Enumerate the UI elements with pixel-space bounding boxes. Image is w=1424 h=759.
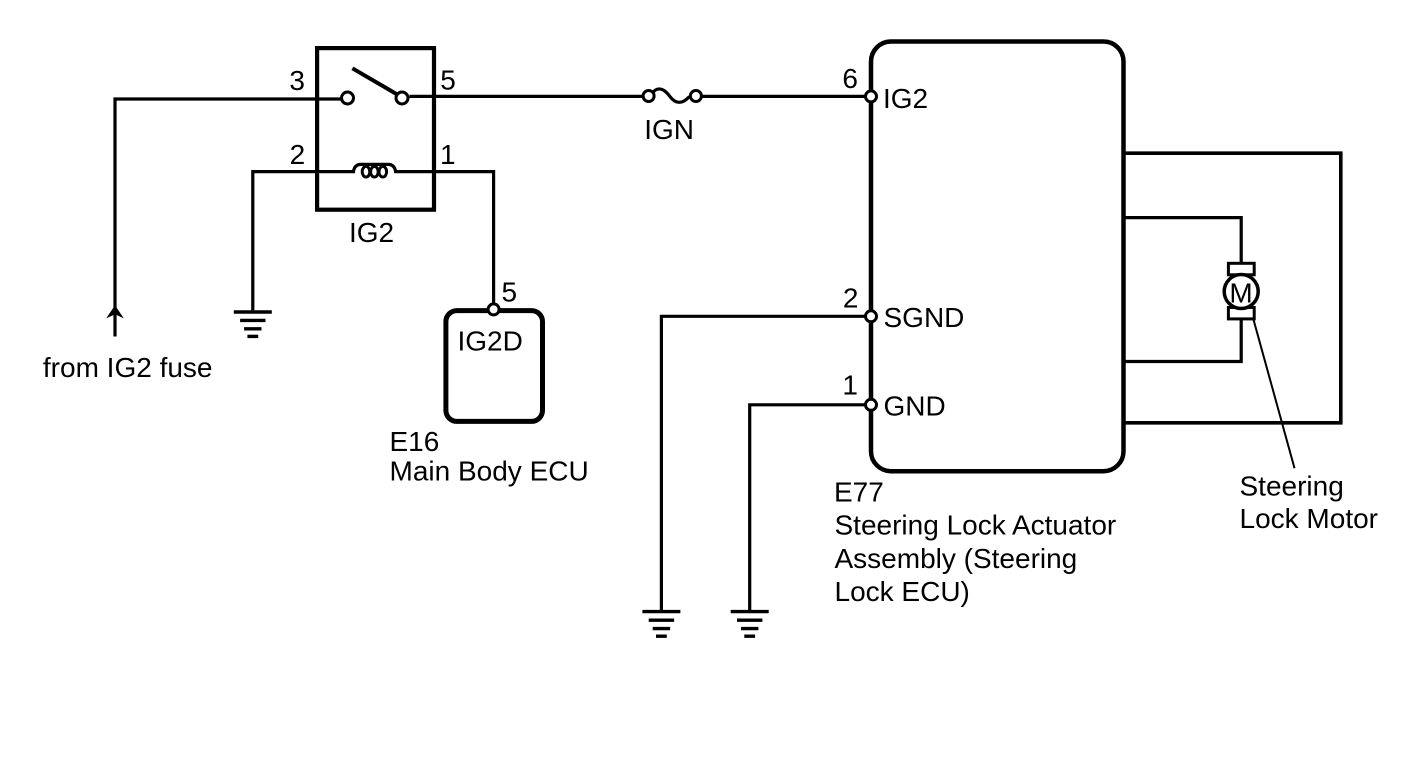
svg-text:E16: E16: [390, 426, 440, 457]
svg-text:E77: E77: [834, 477, 884, 508]
relay box IG2: [317, 48, 434, 210]
motor circle M: [1224, 275, 1258, 309]
svg-text:5: 5: [502, 277, 518, 308]
motor top brush cap: [1228, 263, 1254, 275]
svg-text:GND: GND: [884, 390, 946, 421]
E77 pin 6 circle: [866, 91, 877, 102]
inner motor loop wire top: [1124, 218, 1242, 264]
wire relay pin2 to ground: [253, 172, 317, 311]
svg-text:IGN: IGN: [644, 114, 694, 145]
wire from IG2 fuse vertical riser: [115, 99, 348, 337]
svg-text:IG2D: IG2D: [458, 325, 523, 356]
svg-text:from IG2 fuse: from IG2 fuse: [43, 352, 213, 383]
outer motor loop wire: [1124, 153, 1341, 423]
svg-text:1: 1: [842, 370, 858, 401]
relay coil: [317, 164, 434, 171]
ground (GND): [731, 612, 769, 637]
E16 pin 5 circle: [488, 304, 499, 315]
wire E77 pin1 GND to ground: [750, 405, 871, 610]
inner motor loop wire bottom: [1124, 319, 1242, 362]
svg-text:5: 5: [440, 65, 456, 96]
fuse terminal circle right: [690, 91, 701, 102]
ground (relay coil side): [234, 312, 272, 336]
fuse IGN wave: [653, 89, 690, 102]
svg-text:Assembly (Steering: Assembly (Steering: [835, 543, 1078, 574]
relay switch lever: [352, 68, 396, 94]
svg-text:6: 6: [842, 63, 858, 94]
leader line to Steering Lock Motor: [1253, 318, 1295, 468]
svg-text:SGND: SGND: [884, 302, 965, 333]
E77 connector box: [871, 42, 1124, 472]
motor bottom brush cap: [1228, 308, 1254, 319]
wire fuse IGN to E77 pin6: [702, 95, 867, 98]
wire E77 pin2 SGND to ground: [661, 316, 871, 610]
E77 pin 1 circle: [866, 399, 877, 410]
svg-text:M: M: [1229, 278, 1252, 309]
svg-text:3: 3: [289, 65, 305, 96]
E16 connector box (IG2D): [446, 311, 543, 422]
svg-text:2: 2: [290, 139, 306, 170]
E77 pin 2 circle: [866, 311, 877, 322]
wire relay pin1 down to E16: [434, 172, 494, 304]
svg-text:Lock ECU): Lock ECU): [835, 576, 970, 607]
svg-text:IG2: IG2: [349, 217, 394, 248]
ground (SGND): [642, 612, 680, 637]
svg-text:Steering: Steering: [1240, 470, 1344, 501]
svg-text:IG2: IG2: [883, 83, 928, 114]
svg-text:1: 1: [440, 139, 456, 170]
svg-text:Main Body ECU: Main Body ECU: [390, 455, 589, 486]
svg-text:Lock Motor: Lock Motor: [1240, 503, 1379, 534]
relay switch contact circle left: [342, 92, 354, 104]
relay switch contact circle right: [396, 92, 408, 104]
wire relay pin5 to fuse IGN: [410, 95, 644, 98]
arrowhead up (current direction): [106, 305, 124, 318]
svg-text:Steering Lock Actuator: Steering Lock Actuator: [835, 510, 1117, 541]
fuse terminal circle left: [643, 91, 654, 102]
svg-text:2: 2: [843, 283, 859, 314]
